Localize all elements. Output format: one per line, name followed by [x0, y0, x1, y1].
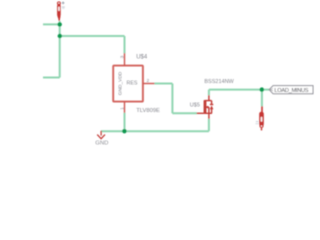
diode cathode bar — [210, 104, 213, 106]
wire MOSFET drain up — [208, 90, 210, 96]
drain stub — [208, 95, 210, 101]
wire from U$4 pin 2 RES — [154, 83, 172, 85]
channel bar — [205, 101, 207, 113]
svg-text:2: 2 — [146, 78, 149, 84]
gate stub — [197, 112, 205, 114]
wire down to battery minus terminal — [261, 90, 263, 107]
svg-text:GND: GND — [95, 140, 108, 146]
pin 1 stub — [124, 102, 126, 113]
svg-text:RES: RES — [127, 80, 138, 86]
junction dot node A — [58, 34, 62, 38]
body arrow — [205, 106, 208, 109]
svg-text:GND_VDD: GND_VDD — [118, 71, 124, 95]
svg-text:U$4: U$4 — [136, 55, 148, 61]
plus polarity badge — [62, 2, 65, 5]
wire down to U$4 pin 3 — [124, 36, 126, 53]
diode triangle — [210, 106, 214, 110]
wire down toward Q1 gate — [171, 84, 173, 114]
svg-text:BSS214NW: BSS214NW — [204, 79, 234, 85]
svg-text:1: 1 — [119, 107, 125, 110]
wire stub left at y=77.5 — [43, 77, 60, 79]
wire vertical from battery plus terminal down — [59, 21, 61, 78]
wire stub left at battery plus node — [43, 23, 60, 25]
pin 2 stub — [143, 83, 155, 85]
svg-text:LOAD_MINUS: LOAD_MINUS — [274, 88, 308, 94]
top bar — [204, 100, 211, 102]
svg-text:U$5: U$5 — [190, 103, 200, 109]
svg-text:3: 3 — [119, 55, 125, 58]
body tap — [206, 106, 209, 108]
svg-text:TLV809E: TLV809E — [136, 108, 160, 114]
bottom bar — [204, 112, 212, 114]
junction dot on GND net — [122, 129, 126, 133]
ground symbol — [97, 131, 105, 139]
transistor U$5 BSS214NW n-channel MOSFET — [197, 95, 214, 119]
junction dot on LOAD_MINUS net — [260, 87, 264, 91]
battery plus terminal pin — [57, 1, 61, 21]
minus polarity badge — [256, 121, 258, 122]
wire to Q1 gate — [172, 112, 197, 114]
svg-text:<: < — [270, 88, 273, 94]
IC U$4 TLV809E box — [113, 66, 143, 102]
battery minus terminal pin — [261, 106, 263, 112]
wire from node to U$4 VDD pin 3 — [60, 35, 125, 37]
source stub — [208, 113, 210, 119]
LOAD_MINUS net wire — [209, 89, 270, 91]
junction dot at battery plus pin — [58, 22, 62, 26]
pin 3 stub — [124, 53, 126, 65]
GND net horizontal wire — [101, 130, 209, 132]
net flag LOAD_MINUS — [269, 86, 313, 94]
wire MOSFET source down to GND net — [208, 119, 210, 132]
wire from U$4 pin 1 down to GND net — [124, 113, 126, 132]
body diode branch — [211, 101, 213, 105]
gate bar — [203, 100, 205, 113]
